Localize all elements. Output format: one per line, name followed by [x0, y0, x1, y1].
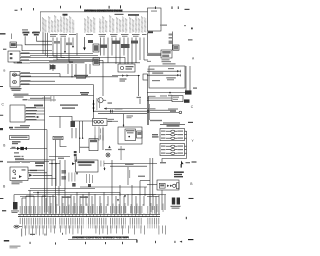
MB2 side text	[137, 132, 141, 135]
module box MB2 outer	[118, 127, 142, 144]
vertical x112 long	[111, 160, 113, 192]
vertical x138.5	[138, 76, 140, 96]
connector block C1	[8, 51, 20, 62]
wire end labels	[168, 108, 178, 112]
thick bus right top	[147, 53, 161, 55]
verticals center-low	[72, 121, 83, 147]
dark blob left margin	[0, 128, 3, 130]
C2 name below	[20, 125, 30, 126]
arrow on C2 wire	[37, 116, 40, 118]
bus band center 3	[49, 60, 94, 62]
label XX far right	[188, 39, 193, 41]
circuit name labels below row2	[25, 226, 166, 236]
hatched connector label	[11, 210, 19, 213]
label right y120	[150, 120, 162, 121]
inline connector on y111	[111, 110, 113, 113]
label y149	[105, 149, 112, 150]
component K1 small box	[10, 42, 17, 48]
MB2 side box	[137, 131, 143, 138]
wire y108 with arrow	[104, 107, 147, 109]
tiny text right top	[160, 25, 167, 26]
wire M1 p3	[20, 80, 55, 82]
label col right of strip	[169, 34, 173, 44]
label under JB	[162, 59, 172, 62]
CS labels	[173, 97, 179, 100]
MB1 text	[90, 140, 97, 143]
wire M1 p2	[20, 76, 118, 78]
injector common vertical	[185, 131, 187, 159]
vertical x65	[64, 160, 66, 190]
junction dot lower-left	[37, 192, 39, 194]
right end box blob	[148, 31, 154, 33]
vertical bus V3	[93, 85, 95, 119]
bottom tick e	[121, 242, 124, 244]
wire y163.5 right-center	[104, 163, 157, 165]
verticals group y160	[52, 160, 60, 186]
M1 pin labels	[21, 72, 31, 84]
junction dots center-low	[79, 138, 83, 139]
SB1 drop wires	[95, 136, 103, 141]
long wire y113.7	[98, 113, 147, 115]
wire drop w15	[123, 38, 125, 56]
left margin dash y86.6	[0, 86, 3, 88]
arrow right of S1	[29, 174, 32, 177]
top connector bus line	[40, 11, 148, 13]
hatched component center	[71, 121, 76, 127]
label y176 right-center	[138, 176, 145, 177]
zone mark top 7	[177, 6, 180, 9]
wire drop w11	[107, 38, 109, 63]
sublabel PAGE 2	[128, 14, 139, 16]
stepped bus center	[49, 116, 95, 121]
down arrow under PB	[76, 173, 78, 175]
label col x149	[148, 104, 151, 120]
svg-text:ENGINE CONTROL WIRING 4.0L MPI: ENGINE CONTROL WIRING 4.0L MPI	[72, 236, 129, 240]
label XX near distributor	[108, 102, 113, 103]
wire drop w2	[56, 38, 58, 61]
pin id labels below strip row1	[19, 218, 160, 224]
label col x103 y160	[101, 161, 105, 167]
wire drop w19	[139, 38, 141, 61]
zone mark top 10b	[109, 6, 110, 9]
bottom title text	[72, 236, 129, 240]
bottom connector bus top line	[18, 213, 160, 215]
zone mark top 9	[154, 6, 157, 9]
small wires right top	[147, 60, 151, 62]
right drops	[150, 195, 165, 214]
sublabel SHEET 1	[115, 14, 124, 15]
sensor box SB1	[93, 119, 108, 126]
injector 6	[171, 152, 175, 154]
CS dark blob	[184, 99, 190, 102]
L1 text	[11, 137, 28, 138]
inline connector pair wire	[10, 148, 47, 150]
C1 pin labels	[21, 52, 31, 60]
zone letter C left	[2, 103, 5, 107]
center label under bus	[80, 92, 89, 95]
lower-left wire 1	[28, 189, 65, 191]
vertical label upper-left	[10, 34, 13, 40]
horizontal y163	[49, 163, 60, 165]
zone mark top 13	[32, 8, 35, 10]
zone tick top A	[15, 9, 18, 11]
SA right cap	[177, 183, 180, 189]
AB diode symbols	[177, 70, 181, 77]
connector stack CS	[172, 96, 183, 102]
small label b	[14, 156, 24, 157]
step wire center-low	[60, 140, 67, 147]
distributor circle center-right	[98, 98, 103, 103]
coil arrow dark	[181, 161, 184, 168]
lower-left wire 3	[14, 194, 166, 196]
bottom title underline	[68, 238, 137, 240]
junction dots y163	[51, 163, 56, 164]
footnote text bottom-left	[10, 246, 21, 249]
small label near w-drops	[50, 65, 56, 69]
S1 internal marks	[12, 169, 26, 178]
label smudges group3	[101, 203, 144, 213]
vertical under step	[59, 116, 61, 128]
svg-text:B: B	[3, 144, 5, 148]
long wire y111	[94, 110, 151, 112]
label right of S1	[30, 170, 37, 171]
injector 6 labels	[161, 153, 183, 154]
bottom tick a	[29, 242, 32, 244]
center verticals to diode row	[68, 64, 90, 77]
S1 wire p1	[28, 169, 45, 171]
vertical x103 upper long	[102, 60, 104, 96]
injector 2	[171, 134, 175, 136]
zone letter B left	[3, 184, 6, 188]
dark component pair right-bottom	[172, 198, 180, 205]
label text mid drop	[88, 40, 93, 43]
zone letter C right	[191, 105, 194, 109]
wire from label1 down-right	[25, 36, 52, 45]
SA inner text	[160, 184, 164, 186]
zone letter Y right	[192, 139, 195, 143]
label row ign b	[22, 161, 31, 162]
SA inner box	[159, 183, 165, 188]
C2 pin labels	[26, 107, 37, 120]
bottom tick c	[84, 242, 87, 244]
module box MB1	[89, 139, 98, 151]
label above MB2	[127, 115, 134, 118]
tiny marks above title	[30, 233, 63, 236]
zone mark right y28	[191, 28, 193, 30]
wire drop w16	[127, 38, 129, 65]
S1 wiper triangle	[19, 175, 22, 178]
strip drop verticals left	[43, 33, 47, 58]
dark label right of C2 top	[34, 105, 43, 107]
wire drop w14	[119, 38, 121, 65]
vertical x172	[171, 32, 173, 51]
diode row wire	[60, 76, 90, 78]
small oval component bottom-left	[14, 225, 22, 228]
zone tick left bottom	[4, 240, 9, 242]
label smudges group2	[51, 203, 94, 213]
zone tick left 2	[0, 197, 3, 199]
label above inline conn	[115, 108, 123, 109]
injector 5	[171, 149, 175, 151]
injector bank labels left	[152, 134, 159, 138]
small symbols under PB	[72, 183, 75, 187]
wire drop w4 with arrow	[64, 38, 66, 54]
label above M1	[12, 75, 20, 76]
S1 wire p4	[28, 177, 56, 179]
left margin label y161	[0, 161, 3, 162]
ground bus right	[147, 92, 190, 94]
power box PB	[76, 160, 99, 172]
bottom tick d	[104, 242, 107, 244]
SB1 right label	[108, 119, 114, 122]
lower-left wire 2	[33, 191, 120, 193]
zone mark top 14	[21, 8, 22, 10]
zone letter B inner	[3, 69, 5, 73]
diodes on y75.5	[122, 74, 129, 76]
coil box CB top	[118, 64, 135, 72]
injector 3 labels	[161, 138, 183, 139]
M1 name label	[11, 88, 22, 91]
zone letter B2 left	[3, 144, 5, 148]
wire M1 p4	[20, 84, 94, 86]
wire y124	[160, 124, 185, 126]
staircase corners	[53, 56, 73, 62]
injector bank 2 box	[160, 144, 185, 156]
bus center-low 1	[49, 156, 70, 158]
wire SB1 to MB2	[107, 120, 118, 122]
S1 contact circle	[13, 170, 16, 173]
texture band gaps	[56, 206, 148, 229]
wire drop w10	[103, 38, 105, 56]
wire from MB1	[80, 147, 89, 153]
wire x104 with arrow	[104, 167, 106, 171]
bottom arrow h	[180, 241, 183, 243]
center drops into bottom strip group1	[22, 190, 46, 214]
V3 thick segment	[93, 100, 95, 112]
vertical x147.5 upper	[147, 33, 149, 53]
CB text	[126, 66, 134, 70]
junction dots upper-left	[42, 41, 45, 46]
injector 2 labels	[161, 134, 183, 135]
PB right label col	[86, 174, 93, 183]
wire M1 p1	[20, 74, 60, 77]
relay box R1 top-center	[93, 44, 99, 52]
injector 3	[171, 137, 175, 139]
bottom tick b	[54, 242, 57, 244]
center wire labels row a	[60, 104, 78, 108]
zone mark top 11	[80, 6, 81, 9]
lower-left corner wire	[13, 195, 15, 202]
injector 5 labels	[161, 149, 183, 150]
AB internal wire 2	[147, 74, 181, 76]
wire y166 right-center	[110, 165, 147, 167]
diode wire y75.5	[112, 75, 140, 77]
zone tick right 3	[189, 197, 194, 199]
inline connector pair symbol	[17, 147, 27, 150]
wire y180 right-center	[140, 180, 150, 182]
S1 wire p2	[28, 172, 47, 174]
label block drops extra2	[66, 43, 72, 46]
arrowheads above strip	[117, 195, 126, 201]
V3 junction dots	[93, 103, 95, 109]
vertical x190 right	[189, 66, 191, 93]
wire drop w7	[76, 33, 78, 56]
verticals y185 group	[120, 181, 145, 196]
label smudge right-mid b	[149, 108, 156, 109]
left label col x101	[99, 129, 102, 140]
vertical pair center-low	[75, 156, 77, 162]
C2 wires	[25, 108, 45, 120]
labeled wire y124	[163, 122, 180, 123]
stub wire under C1	[14, 62, 30, 63]
wire drop w1	[52, 38, 54, 57]
vertical center-low V4	[55, 140, 57, 212]
top strip left border	[40, 12, 42, 32]
distributor stub	[103, 99, 106, 101]
vertical x128 labeled	[127, 167, 129, 185]
diode row label	[74, 75, 88, 79]
label cols near V3 top	[97, 98, 100, 110]
AB lower text	[152, 77, 176, 81]
long vertical bus V1	[44, 96, 46, 212]
S1 dot	[15, 174, 16, 175]
dark sublabel left-center	[63, 14, 68, 16]
long vertical bus V2	[46, 130, 48, 212]
wire H129	[10, 129, 47, 131]
label XX left margin	[3, 49, 6, 50]
vertical x103 low	[102, 128, 104, 150]
CKT label col right-bottom	[151, 203, 164, 212]
wire drop w6 with arrow	[72, 38, 74, 49]
wire drop w17	[131, 38, 133, 65]
label y79	[120, 78, 127, 81]
PB sub labels	[69, 173, 76, 182]
wire drop w13	[115, 38, 117, 65]
wire drop w3	[60, 38, 62, 58]
label row dark	[9, 127, 13, 129]
M1 solenoid top	[13, 73, 17, 76]
wire y50.5	[22, 50, 52, 52]
injector row leads	[166, 131, 177, 153]
wire from K1	[17, 45, 23, 51]
label XX far right 2	[193, 87, 197, 88]
bus band center 1	[49, 56, 80, 58]
inline connector c1	[74, 151, 77, 156]
bottom connector pin ticks	[20, 214, 157, 216]
bus mid 2	[30, 62, 140, 64]
tiny mark right top	[184, 25, 186, 26]
bus from C1 pin1	[20, 53, 93, 55]
injector 4	[171, 145, 175, 147]
S1 wire p3	[33, 174, 53, 176]
corner feeds group1	[22, 196, 46, 198]
bottom connector bus bottom line	[18, 216, 160, 218]
arrow left of box PB	[72, 162, 75, 165]
wire drop w12	[111, 38, 113, 56]
AB internal wire 1	[147, 70, 181, 72]
junction dot y75.6	[138, 75, 139, 76]
alternator box AB	[149, 66, 185, 88]
zone mark top 8	[172, 6, 173, 9]
zone mark top 12	[59, 6, 62, 9]
zone letter A right	[192, 57, 195, 61]
small label a	[14, 152, 19, 153]
lower-left wire 0	[30, 187, 95, 189]
pin labels columns under top bus	[43, 15, 146, 33]
S1 name labels	[12, 181, 23, 184]
label y149 b	[118, 149, 125, 150]
SB1 circles	[94, 120, 103, 123]
G1 labels	[14, 94, 29, 98]
wire into SA	[147, 183, 157, 185]
bottom tick g	[174, 241, 177, 243]
vertical x140	[139, 99, 141, 104]
ignition switch box S1	[10, 167, 28, 181]
junction dot x123.5	[123, 125, 124, 126]
oval tail wire	[21, 229, 23, 237]
SB1 label columns	[95, 127, 104, 136]
bus from C1 pin3	[20, 59, 103, 61]
CS labels above	[160, 95, 172, 97]
arrow sym x110	[108, 146, 110, 149]
left margin label y33	[0, 33, 6, 35]
relay box R2	[93, 58, 100, 65]
SA drop wire	[161, 190, 163, 196]
wire top of C2	[28, 99, 56, 101]
junction dots diode row	[71, 76, 86, 77]
vertical x186 right	[185, 66, 187, 93]
wire drop w8 bold arrow	[83, 37, 86, 51]
wire name labels row under pins	[50, 34, 147, 37]
left dash at strip	[2, 210, 6, 212]
dark blob right	[185, 90, 192, 94]
pin text small left of strip 2	[32, 32, 37, 34]
injector 4 labels	[161, 146, 183, 147]
label beside x128	[128, 170, 131, 178]
label above x140	[137, 97, 142, 98]
vertical x123.5 center	[123, 114, 125, 127]
wire label above 2	[42, 98, 51, 99]
zone mark top 10	[120, 5, 121, 8]
label box text	[54, 137, 62, 138]
label XX right y162	[160, 162, 166, 163]
label y164 right-center	[125, 164, 134, 165]
zone letter B right	[190, 182, 193, 186]
right drops corners	[132, 195, 159, 197]
wire drop w9	[100, 38, 102, 56]
hatched connector bottom-left	[13, 202, 18, 210]
SA arrows	[167, 185, 172, 187]
motor assembly M1 box	[10, 72, 20, 88]
label col below MB2	[120, 146, 123, 160]
svg-text:B: B	[3, 69, 5, 73]
right end box text	[151, 11, 157, 12]
AB internal text	[148, 68, 175, 74]
symbol under right col	[88, 184, 91, 187]
pin id labels below strip row1b	[22, 224, 159, 228]
vertical x147.5 mid	[147, 80, 149, 96]
label box center-low	[53, 136, 63, 139]
M1 solenoid bottom	[13, 80, 17, 83]
R2 text	[94, 59, 99, 64]
alternator label	[163, 63, 176, 64]
junction box JB2	[173, 45, 179, 50]
label text pair upper-left	[22, 32, 39, 36]
MB2 text	[126, 130, 135, 133]
relay label box L1	[10, 136, 30, 140]
double vertical right of MB2	[147, 96, 148, 125]
JB2 text	[174, 46, 178, 50]
